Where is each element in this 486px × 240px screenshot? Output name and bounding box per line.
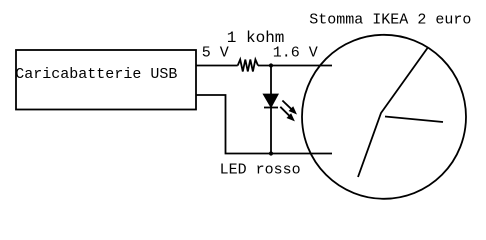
LED D1 cathode bar — [264, 107, 278, 109]
node junction bottom (LED cathode to return net) — [269, 151, 273, 155]
svg-text:Stomma IKEA 2 euro: Stomma IKEA 2 euro — [309, 12, 471, 29]
resistor R1 zigzag — [238, 60, 258, 72]
LED D1 triangle (anode) — [264, 95, 278, 107]
node junction 1.6V — [269, 63, 273, 67]
clock hour hand — [385, 117, 443, 123]
wire 5V: charger output to resistor — [196, 65, 238, 67]
svg-text:1.6 V: 1.6 V — [273, 45, 318, 62]
svg-text:Caricabatterie USB: Caricabatterie USB — [15, 66, 177, 83]
wire 1.6V net: resistor to clock — [258, 65, 332, 67]
block U1 Caricabatterie USB (charger box) — [16, 50, 196, 110]
LED light arrow 1 — [282, 101, 291, 110]
clock second hand (bent polyline) — [358, 48, 428, 177]
svg-text:5 V: 5 V — [202, 45, 229, 62]
wire return: charger bottom output, right then down then right to clock — [196, 95, 332, 154]
clock body: Stomma IKEA 2 euro (circle) — [302, 35, 466, 199]
wire: 1.6V node down to LED and bottom net — [270, 66, 272, 154]
LED light arrow 2 — [280, 107, 289, 116]
svg-text:LED rosso: LED rosso — [220, 162, 301, 179]
